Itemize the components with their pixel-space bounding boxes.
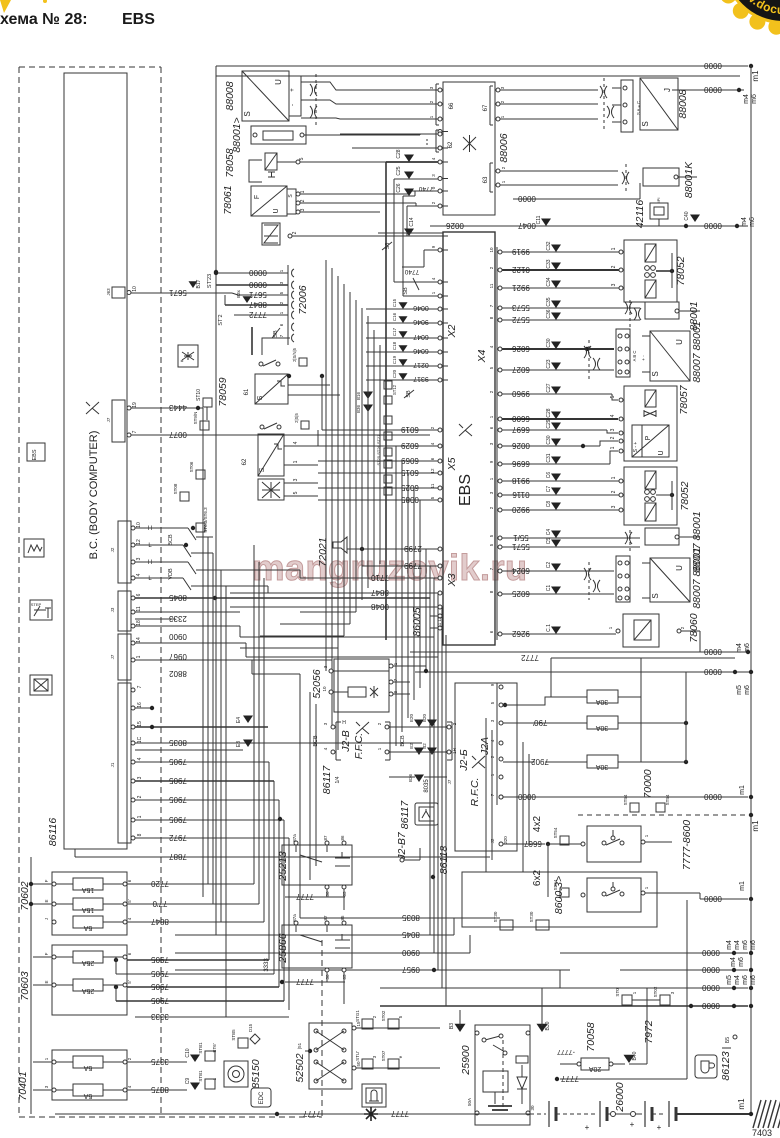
svg-text:EBS: EBS: [457, 474, 474, 506]
svg-text:70058: 70058: [585, 1022, 597, 1051]
svg-text:X2: X2: [446, 324, 458, 338]
wire 5572 pin 8: [498, 318, 502, 322]
horn 72021: [333, 537, 347, 553]
svg-text:0900: 0900: [402, 948, 420, 957]
svg-text:m6: m6: [750, 940, 757, 950]
svg-text:B17: B17: [196, 279, 202, 288]
wire CAN H VDB: [135, 561, 188, 563]
shield arcs 5573/5572: [625, 302, 628, 314]
wire from 15: [356, 1027, 440, 1029]
wire 0000 m4 m6 top: [677, 89, 744, 91]
K asterisk 62: [463, 135, 476, 152]
svg-text:2|S/N|5: 2|S/N|5: [292, 347, 297, 361]
svg-text:30A: 30A: [595, 698, 608, 705]
svg-text:3: 3: [293, 478, 299, 481]
wire 5671 to 72006: [216, 292, 232, 294]
svg-text:C26: C26: [396, 183, 402, 192]
svg-text:2: 2: [137, 795, 143, 798]
wire 5571 pin 5: [498, 545, 502, 549]
wire 0000 a to 72006: [216, 272, 288, 274]
fuse 25A no1: [33, 956, 73, 958]
svg-text:50A: 50A: [467, 1098, 472, 1106]
svg-text:STG1: STG1: [355, 1010, 360, 1022]
svg-text:7905: 7905: [151, 996, 169, 1005]
svg-text:0000: 0000: [702, 1001, 720, 1010]
bus 0000 m1 mid: [503, 796, 748, 798]
svg-text:7772: 7772: [521, 653, 539, 662]
connector J2 pins 10 12 3 4: [118, 521, 131, 583]
svg-text:78060: 78060: [688, 613, 700, 642]
svg-text:J3: J3: [110, 607, 115, 612]
ST2x tiny boxes column: [384, 416, 392, 424]
valve 78060: [623, 614, 659, 647]
svg-text:C20: C20: [392, 369, 397, 378]
svg-text:5671: 5671: [169, 288, 187, 297]
svg-text:52502: 52502: [294, 1053, 306, 1082]
modulator 78052 lower: [624, 467, 677, 525]
diode 25900: [517, 1077, 527, 1089]
bus left vertical: [30, 857, 32, 1114]
svg-text:ST6': ST6': [212, 1043, 217, 1052]
svg-text:78058: 78058: [224, 148, 236, 177]
wire 8035: [135, 742, 422, 744]
svg-text:8045: 8045: [169, 593, 187, 602]
star node: [364, 1107, 378, 1121]
wire 7777 under 25866: [285, 981, 345, 983]
relay 25900: [475, 1025, 530, 1125]
svg-text:55/1: 55/1: [513, 533, 529, 542]
shield 88001K: [622, 172, 625, 184]
svg-text:4: 4: [137, 757, 143, 760]
svg-text:8600.3>: 8600.3>: [553, 876, 565, 914]
wire from 50: [356, 1067, 440, 1069]
svg-text:790': 790': [532, 718, 547, 727]
svg-text:m6: m6: [744, 685, 751, 695]
svg-text:87: 87: [323, 915, 328, 921]
sensor 88001 mid: [645, 302, 679, 319]
svg-text:3: 3: [136, 557, 142, 560]
svg-text:STU': STU': [355, 1051, 360, 1061]
svg-text:C23: C23: [546, 359, 552, 368]
svg-text:E: E: [44, 899, 49, 902]
triangle E4: [243, 716, 253, 724]
svg-text:C.1: C.1: [546, 624, 552, 632]
svg-text:m4: m4: [741, 217, 748, 227]
svg-text:6026: 6026: [512, 344, 530, 353]
connector 85150: [224, 1061, 248, 1087]
svg-text:2: 2: [610, 436, 616, 439]
svg-text:C28: C28: [396, 149, 402, 158]
svg-text:42116: 42116: [634, 200, 646, 229]
icon EBS lamp: [27, 443, 45, 461]
svg-text:X5: X5: [446, 457, 458, 471]
svg-text:S: S: [243, 111, 252, 116]
svg-text:C11: C11: [536, 215, 542, 224]
svg-text:6015: 6015: [401, 468, 419, 477]
switch above 62: [260, 425, 264, 429]
wires 7905 fuse outputs: [127, 959, 269, 961]
svg-text:5571: 5571: [512, 542, 530, 551]
svg-text:C9: C9: [185, 1078, 191, 1085]
svg-text:+: +: [290, 88, 296, 92]
wire 0000 63: [513, 198, 640, 200]
wire from 88001: [304, 134, 420, 136]
svg-text:C10: C10: [185, 1048, 191, 1057]
svg-text:C36: C36: [546, 309, 552, 318]
bus right vertical: [750, 66, 752, 1114]
svg-text:25A: 25A: [81, 959, 94, 966]
svg-text:EBS: EBS: [122, 11, 155, 28]
wire 7905 b: [135, 780, 274, 782]
svg-text:m6: m6: [738, 957, 745, 967]
svg-text:C14: C14: [409, 217, 415, 226]
svg-text:S: S: [651, 593, 660, 598]
svg-text:B36: B36: [356, 405, 361, 414]
svg-text:0957: 0957: [402, 965, 420, 974]
wire J1-16 stub: [135, 707, 152, 709]
wire 5573 pin 7: [498, 306, 502, 310]
svg-text:30A: 30A: [595, 763, 608, 770]
svg-text:+ -: + -: [641, 355, 646, 361]
bus 0000 row thick: [380, 1005, 748, 1007]
wire 9919 pin 10: [498, 250, 502, 254]
logo gear fragment top-left: [0, 0, 11, 13]
wire pin4 SB: [394, 281, 438, 283]
component 86123: [695, 1055, 717, 1078]
bus 0000 m5 m6: [415, 671, 751, 673]
svg-text:U: U: [675, 339, 684, 345]
svg-text:7777: 7777: [561, 1074, 579, 1083]
triangle B3x: [243, 296, 252, 303]
svg-text:BCB: BCB: [168, 534, 174, 546]
svg-text:8035: 8035: [169, 738, 187, 747]
svg-text:7740: 7740: [418, 185, 433, 192]
wires to X5 left: [322, 429, 430, 431]
svg-text:m1: m1: [751, 70, 760, 82]
svg-text:8: 8: [137, 833, 143, 836]
svg-text:88008: 88008: [224, 81, 236, 110]
svg-text:25A: 25A: [81, 987, 94, 994]
svg-text:m4: m4: [736, 643, 743, 653]
svg-text:6029: 6029: [401, 441, 419, 450]
svg-text:D15: D15: [248, 1023, 253, 1032]
svg-text:+: +: [585, 1123, 590, 1132]
switch 52502: [309, 1023, 352, 1089]
svg-text:78052: 78052: [675, 256, 687, 285]
fuse 30A no1: [503, 697, 587, 705]
svg-text:1: 1: [611, 476, 617, 479]
svg-text:m6: m6: [744, 643, 751, 653]
svg-text:86005: 86005: [411, 607, 423, 636]
svg-text:STB1: STB1: [198, 1042, 203, 1054]
svg-text:m1: m1: [737, 1098, 746, 1110]
svg-text:m6: m6: [751, 94, 758, 104]
svg-text:ST9/N: ST9/N: [193, 412, 198, 425]
svg-text:7: 7: [132, 430, 138, 433]
svg-text:72021: 72021: [317, 537, 329, 566]
connector J7 pins 19 7: [112, 400, 125, 442]
svg-text:0900: 0900: [169, 632, 187, 641]
svg-text:B3: B3: [449, 1023, 455, 1029]
svg-text:4443: 4443: [169, 403, 187, 412]
wire 7772: [551, 657, 735, 659]
junction dot 6026: [585, 347, 589, 351]
ECU EBS box: [443, 232, 495, 645]
svg-text:6696: 6696: [512, 459, 530, 468]
svg-text:0000: 0000: [704, 647, 722, 656]
svg-text:ST02: ST02: [381, 1010, 386, 1021]
svg-text:C6: C6: [546, 472, 552, 479]
svg-text:m6: m6: [742, 940, 749, 950]
connector 67: [496, 88, 500, 92]
sensor 88007 88001 lower U/S: [650, 558, 690, 602]
svg-text:0026: 0026: [446, 221, 464, 230]
svg-text:14: 14: [136, 637, 142, 643]
svg-text:C8: C8: [546, 501, 552, 508]
wire channel verticals centre: [325, 260, 327, 671]
fuse group upper box: [52, 872, 127, 935]
svg-text:3: 3: [611, 505, 617, 508]
connector 62 top: [435, 130, 437, 152]
svg-text:0000: 0000: [702, 965, 720, 974]
svg-text:10: 10: [136, 522, 142, 528]
svg-text:7972: 7972: [643, 1020, 655, 1044]
triangles E2 B2: [414, 748, 424, 756]
svg-text:BCB: BCB: [313, 735, 319, 747]
wire 7887: [75, 856, 490, 858]
svg-text:E2: E2: [409, 743, 414, 749]
svg-text:X3: X3: [446, 573, 458, 587]
svg-text:E20: E20: [409, 714, 414, 723]
junction dots mid: [278, 817, 282, 821]
cable 88006 shield: [600, 86, 603, 98]
wire J1-15: [135, 726, 268, 728]
wire 6025 pin 8: [498, 592, 502, 596]
svg-text:ST54: ST54: [623, 794, 628, 805]
wire 0026 pin 3: [498, 444, 502, 448]
wire 55/1 pin 5: [498, 536, 502, 540]
ECU 86116 body computer box: [64, 73, 127, 849]
svg-text:0085: 0085: [401, 495, 419, 504]
svg-text:25866: 25866: [277, 933, 289, 963]
wire CAN L BCB: [135, 544, 183, 546]
component 86117 icon: [415, 803, 438, 825]
connector 72006 sockets: [287, 265, 289, 345]
svg-text:C31: C31: [546, 453, 552, 462]
fuse bus verticals: [640, 658, 642, 762]
svg-text:5': 5': [127, 980, 132, 984]
wire 0000 b to 72006: [216, 284, 288, 286]
bus 0000 m4 r6: [410, 651, 748, 653]
triangle B30: [537, 1024, 548, 1032]
svg-text:20A: 20A: [588, 1065, 601, 1072]
fuse 5A no3: [33, 1089, 73, 1091]
svg-text:C5: C5: [546, 538, 552, 545]
svg-text:87a: 87a: [292, 834, 297, 842]
wire 6667: [503, 843, 545, 845]
svg-text:63: 63: [483, 176, 489, 183]
svg-text:J2A: J2A: [479, 737, 491, 756]
wire 7972: [135, 837, 289, 839]
svg-text:18: 18: [136, 620, 142, 626]
svg-text:C34: C34: [546, 277, 552, 286]
svg-text:C1: C1: [546, 585, 552, 592]
svg-text:J1: J1: [110, 762, 115, 767]
svg-text:SB: SB: [403, 287, 409, 295]
svg-text:6024: 6024: [512, 566, 530, 575]
wire 6696 pin 9: [498, 462, 502, 466]
wires 62 pins 4 1: [284, 445, 318, 447]
svg-text:25213: 25213: [277, 851, 289, 881]
svg-text:ST07: ST07: [381, 1050, 386, 1061]
svg-text:86123: 86123: [720, 1051, 732, 1080]
svg-text:26000: 26000: [614, 1082, 626, 1112]
svg-text:0217: 0217: [413, 361, 429, 368]
svg-text:хема № 28:: хема № 28:: [0, 11, 88, 28]
frame vertical: [215, 66, 217, 935]
wire 0000 relay2: [645, 892, 700, 894]
wire 0967: [135, 642, 246, 644]
sensor 88008 left: [242, 71, 289, 121]
svg-text:9317: 9317: [413, 375, 429, 382]
triangle B40: [624, 1055, 635, 1063]
wire 0957 lower: [175, 969, 570, 971]
svg-text:0026: 0026: [512, 441, 530, 450]
svg-text:S: S: [259, 467, 266, 472]
svg-text:86118: 86118: [438, 846, 450, 875]
icon retarder: [30, 675, 52, 695]
wires 63 to 88001K: [500, 170, 618, 172]
logo gear top-right: [0, 0, 780, 35]
connector J3 pins 6 11 18: [118, 591, 131, 631]
svg-text:A B C: A B C: [632, 351, 637, 362]
svg-text:6025: 6025: [512, 589, 530, 598]
component 42116: [650, 203, 668, 219]
svg-text:7905: 7905: [169, 757, 187, 766]
svg-text:5573: 5573: [512, 303, 530, 312]
svg-text:|51: |51: [297, 1042, 302, 1049]
wire 7710: [300, 577, 430, 579]
triangle B17: [189, 281, 198, 288]
connector 63: [489, 163, 491, 192]
box ST9/N: [200, 421, 209, 430]
svg-text:0000: 0000: [704, 667, 722, 676]
bracket J2: [451, 722, 453, 760]
wire 0026: [378, 232, 443, 234]
svg-text:10: 10: [322, 686, 327, 692]
svg-text:0000: 0000: [704, 894, 722, 903]
svg-text:0000: 0000: [518, 792, 536, 801]
wire 6600 pin 1: [498, 417, 502, 421]
svg-text:67: 67: [483, 104, 489, 111]
shield arcs 88007 upper: [584, 346, 587, 358]
wire 0900 lower: [175, 952, 470, 954]
svg-text:88007 88001: 88007 88001: [691, 321, 703, 382]
svg-text:11: 11: [136, 606, 142, 611]
svg-text:86: 86: [340, 835, 345, 841]
wire 7777 under 25213: [285, 896, 345, 898]
svg-text:19: 19: [132, 402, 138, 408]
svg-text:J: J: [44, 918, 49, 920]
bus 0000 row b: [620, 969, 748, 971]
svg-text:E3: E3: [236, 741, 242, 747]
svg-text:61: 61: [244, 388, 250, 395]
svg-text:7905: 7905: [169, 815, 187, 824]
svg-text:6697: 6697: [512, 425, 530, 434]
svg-text:10: 10: [132, 286, 138, 292]
svg-text:25900: 25900: [460, 1045, 472, 1075]
wire 9921 pin 11: [498, 286, 502, 290]
sensor 88007 88001 upper U/S: [650, 331, 690, 381]
wire CAN H BCB: [135, 527, 188, 529]
svg-text:J7: J7: [447, 779, 452, 784]
ECU right bracket: [496, 247, 498, 640]
wire 0122 pin 2: [498, 268, 502, 272]
svg-text:87: 87: [323, 835, 328, 841]
fuse 30A no2: [503, 722, 587, 724]
wire 2333: [135, 611, 240, 613]
connector J1 pins: [118, 683, 131, 843]
svg-text:C28: C28: [546, 408, 552, 417]
vertical channel X2: [385, 162, 387, 640]
svg-text:EDC: EDC: [259, 1091, 265, 1104]
svg-text:C32: C32: [546, 241, 552, 250]
svg-text:6046: 6046: [413, 347, 429, 354]
wire 9262 pin 6: [498, 632, 502, 636]
svg-text:3: 3: [137, 776, 143, 779]
wire battery to ground: [676, 1113, 751, 1115]
svg-text:U: U: [273, 208, 280, 213]
wire 8045: [135, 597, 430, 599]
relay 25213: [282, 845, 352, 885]
dashed boundary bottom-right annex: [321, 940, 323, 1117]
svg-text:1C: 1C: [137, 736, 143, 743]
wire 3333: [135, 1016, 289, 1018]
box STB5: [238, 1038, 248, 1048]
svg-text:8075: 8075: [151, 1085, 169, 1094]
sensor connector strip upper: [616, 329, 630, 377]
svg-text:H: H: [148, 526, 152, 532]
svg-text:70000: 70000: [642, 769, 654, 798]
frame vertical right-mid: [686, 900, 688, 1079]
boxes ST30 on box: [500, 920, 513, 930]
connector J63 pin 10: [112, 287, 125, 298]
icon pump box: [362, 1084, 386, 1107]
svg-text:BCB: BCB: [400, 735, 406, 747]
svg-text:C2: C2: [546, 562, 552, 569]
valve block K: [258, 479, 284, 500]
triangle C28: [404, 155, 414, 163]
icon waveform: [24, 539, 44, 557]
fuse group mid box: [52, 945, 127, 1015]
svg-text:IPI: IPI: [656, 198, 661, 203]
boxes ST54 row: [630, 803, 639, 812]
wire 6024 pin 7: [498, 569, 502, 573]
svg-text:m1: m1: [739, 785, 746, 795]
svg-text:C40: C40: [684, 211, 690, 220]
svg-text:C29: C29: [546, 419, 552, 428]
modulator 78052 upper: [624, 240, 677, 302]
svg-text:EBS: EBS: [32, 449, 38, 460]
svg-text:7972: 7972: [169, 833, 187, 842]
boxes STU ST07: [362, 1059, 373, 1069]
svg-text:85: 85: [340, 915, 345, 921]
svg-text:9921: 9921: [512, 283, 530, 292]
svg-text:77'0: 77'0: [152, 899, 167, 908]
svg-text:9262: 9262: [512, 629, 530, 638]
svg-text:85150: 85150: [250, 1059, 262, 1088]
wire 7905 a: [135, 761, 269, 763]
